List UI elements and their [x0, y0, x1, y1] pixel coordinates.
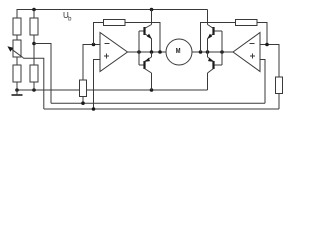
wire R1 to P1 [16, 35, 18, 40]
node emitters right [206, 50, 210, 54]
node 0V rail R4 [32, 88, 36, 92]
wire Q1 base [139, 30, 144, 32]
wire U1 non-inverting input to line B [94, 60, 101, 110]
wire line B [44, 108, 279, 110]
wire divider node to line A [34, 44, 51, 104]
wire U2 inverting input [260, 45, 279, 78]
svg-text:M: M [176, 48, 181, 55]
node R6 line A [81, 101, 85, 105]
wire line A [51, 102, 265, 104]
node feedback tap motor right [199, 50, 203, 54]
wire motor right bus [192, 51, 233, 53]
resistor R6 [80, 80, 87, 97]
node U2 inverting feedback [265, 43, 269, 47]
wire R8 to line B [278, 94, 280, 110]
potentiometer P1 [7, 40, 23, 58]
wire U2 non-inverting to line A [260, 60, 265, 104]
wire feedback U1 [94, 23, 104, 45]
wire R3 to 0V [16, 82, 18, 90]
wire 0V bottom rail [17, 89, 208, 91]
ground [12, 90, 23, 95]
node divider R2 R4 [32, 42, 36, 46]
wire rail to R2 [33, 10, 35, 19]
label Ub [63, 11, 72, 23]
transistor Q4 [208, 52, 214, 90]
node base drive tap left [137, 50, 141, 54]
wire U1 inverting input [83, 45, 100, 81]
wire base tap vertical right [221, 31, 223, 65]
wire Q4 base [215, 64, 223, 66]
node non-inverting line B [92, 107, 96, 111]
op-amp U1 [100, 33, 128, 72]
wire wiper to line B [23, 58, 44, 109]
svg-text:Ub: Ub [63, 11, 72, 23]
node top rail to Q1 collector [150, 8, 154, 12]
wire R2 to R4 [33, 35, 35, 65]
node 0V rail Q2 collector [150, 88, 154, 92]
motor M1 [166, 39, 192, 65]
wire feedback R7 riser [201, 23, 236, 53]
wire P1 to R3 [16, 57, 18, 65]
resistor R8 [276, 77, 283, 94]
resistor R4 [30, 65, 38, 82]
wire base tap vertical left [138, 31, 140, 65]
resistor R1 [13, 18, 21, 35]
transistor Q2 [145, 52, 152, 90]
wire R4 to 0V [33, 82, 35, 90]
wire +Ub top rail [17, 10, 208, 19]
node emitters left [150, 50, 154, 54]
wire U1 output bus [128, 51, 167, 53]
transistor Q3 [207, 10, 213, 53]
wire R5 to motor left node [125, 23, 160, 53]
wire R6 to line A [82, 97, 84, 104]
resistor R5 feedback [104, 20, 126, 26]
node top rail to R2 [32, 8, 36, 12]
wire R7 to U2 inverting [257, 23, 267, 45]
wire Q2 base [139, 64, 144, 66]
node base drive tap right [220, 50, 224, 54]
node U1 inverting feedback tap [92, 43, 96, 47]
resistor R7 feedback [236, 20, 258, 26]
op-amp U2 [233, 33, 260, 72]
resistor R2 [30, 18, 38, 35]
node 0V rail R3 ground [15, 88, 19, 92]
node feedback tap motor left [158, 50, 162, 54]
wire Q3 base [215, 30, 223, 32]
transistor Q1 [145, 10, 152, 53]
resistor R3 [13, 65, 21, 82]
